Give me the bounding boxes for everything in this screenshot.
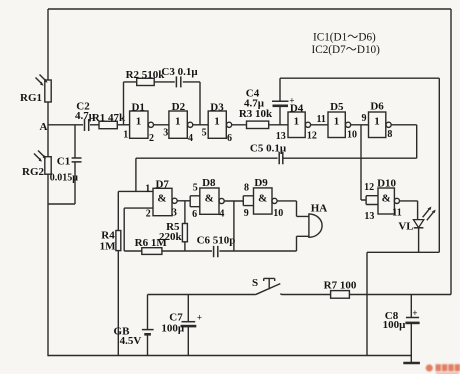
capacitor C4 4.7u electrolytic <box>244 78 295 125</box>
svg-text:100μ: 100μ <box>161 323 185 335</box>
svg-text:D9: D9 <box>254 177 268 189</box>
nand gate D8 input bracket <box>190 196 200 207</box>
capacitor C6 510p <box>197 235 236 258</box>
svg-text:+: + <box>412 308 417 318</box>
svg-text:5: 5 <box>202 128 207 139</box>
svg-text:1: 1 <box>334 116 340 128</box>
wire C1 branch <box>48 125 75 204</box>
resistor R5 220k <box>159 221 187 243</box>
svg-text:1: 1 <box>214 116 220 128</box>
wire D7 pin1 <box>118 190 153 192</box>
nand gate D9 <box>244 177 283 219</box>
nand gate D7 <box>145 178 177 219</box>
resistor R1 <box>92 112 126 129</box>
svg-text:9: 9 <box>362 113 367 124</box>
resistor R7 100 <box>324 279 357 298</box>
wire speaker bottom <box>297 236 309 251</box>
wire R4 branch vertical <box>117 191 119 355</box>
svg-text:RG2: RG2 <box>22 166 45 178</box>
svg-text:4: 4 <box>188 133 193 144</box>
inverter D3 <box>202 101 232 144</box>
nand gate D8 <box>192 177 224 220</box>
svg-text:D1: D1 <box>131 102 144 114</box>
svg-text:D10: D10 <box>377 178 396 190</box>
LED VL <box>398 207 435 233</box>
svg-text:13: 13 <box>364 211 374 222</box>
svg-text:9: 9 <box>244 208 249 219</box>
wire C5 line down to D7 pin 1 <box>135 158 137 191</box>
resistor R6 1M <box>135 237 168 254</box>
svg-text:3: 3 <box>163 128 168 139</box>
capacitor C2 <box>75 101 96 132</box>
svg-text:2: 2 <box>146 209 151 220</box>
svg-text:100μ: 100μ <box>383 319 407 331</box>
svg-text:C6 510p: C6 510p <box>197 235 236 247</box>
wire D7 out to D8 <box>177 200 190 202</box>
svg-text:1: 1 <box>175 116 181 128</box>
svg-text:RG1: RG1 <box>20 92 42 104</box>
svg-text:12: 12 <box>307 131 317 142</box>
svg-text:4.5V: 4.5V <box>120 335 142 347</box>
svg-text:8: 8 <box>387 129 392 140</box>
photoresistor RG1 <box>20 75 51 105</box>
svg-text:6: 6 <box>227 133 232 144</box>
inverter D4 <box>276 102 317 142</box>
svg-text:HA: HA <box>311 203 328 215</box>
capacitor C7 100u electrolytic <box>161 295 202 356</box>
svg-text:VL: VL <box>398 221 413 233</box>
wire D8 out to D9 <box>224 200 243 202</box>
svg-text:3: 3 <box>172 208 177 219</box>
wire LED down <box>418 228 420 253</box>
svg-text:R1 47k: R1 47k <box>92 112 126 124</box>
feedback wire left vertical to D1 input <box>123 82 125 125</box>
capacitor C5 0.1u <box>250 143 287 165</box>
svg-text:D2: D2 <box>172 101 186 113</box>
top feedback rail of second oscillator <box>280 77 439 79</box>
nand gate D10 <box>364 178 402 222</box>
switch S <box>252 277 280 295</box>
svg-text:R3 10k: R3 10k <box>239 108 273 120</box>
svg-text:C3 0.1μ: C3 0.1μ <box>161 66 198 78</box>
battery GB 4.5V <box>114 295 154 356</box>
ground terminal stub below rail <box>410 356 412 363</box>
svg-text:&: & <box>157 193 166 205</box>
watermark logo <box>426 364 460 374</box>
svg-text:D6: D6 <box>370 101 384 113</box>
svg-text:D4: D4 <box>290 102 304 114</box>
svg-text:13: 13 <box>276 131 286 142</box>
svg-text:D3: D3 <box>210 101 224 113</box>
right vertical of second oscillator feedback <box>438 78 440 252</box>
speaker HA <box>309 203 327 238</box>
svg-text:D5: D5 <box>330 101 344 113</box>
svg-text:D8: D8 <box>202 177 216 189</box>
feedback wire horizontal <box>124 81 201 83</box>
svg-text:8: 8 <box>244 183 249 194</box>
svg-text:10: 10 <box>347 130 357 141</box>
wire down to ground rail <box>366 252 368 355</box>
inverter D2 <box>163 101 193 144</box>
svg-text:11: 11 <box>316 114 325 125</box>
inverter D5 <box>328 101 357 141</box>
lower node rail wire <box>124 250 296 252</box>
feedback wire right vertical to D2 output <box>199 82 201 125</box>
capacitor C3 0.1u <box>161 66 198 87</box>
photoresistor RG2 <box>22 151 51 179</box>
C5 line wire <box>136 157 417 159</box>
wire D10 out to LED <box>400 201 418 220</box>
svg-text:1: 1 <box>294 116 300 128</box>
svg-text:10: 10 <box>273 208 283 219</box>
svg-text:1: 1 <box>123 130 128 141</box>
svg-text:&: & <box>258 193 267 205</box>
capacitor C8 100u electrolytic <box>383 295 420 356</box>
frame left rail wire <box>47 9 49 356</box>
wire D9 out to speaker <box>277 201 309 217</box>
svg-text:IC1(D1～D6): IC1(D1～D6) <box>313 32 376 44</box>
wire D5 to D6 <box>351 124 369 126</box>
wire D6 output loop <box>391 125 416 158</box>
svg-text:1: 1 <box>374 116 380 128</box>
svg-text:5: 5 <box>193 182 198 193</box>
svg-text:D7: D7 <box>155 178 169 190</box>
svg-text:&: & <box>205 193 214 205</box>
bottom ground rail wire <box>48 355 411 357</box>
capacitor C1 0.015u <box>50 156 82 184</box>
wire D5-D6 node down to D10 <box>361 125 366 200</box>
resistor R4 1M <box>100 230 121 253</box>
svg-text:1: 1 <box>136 116 142 128</box>
svg-text:C5 0.1μ: C5 0.1μ <box>250 143 287 155</box>
supply wire switch to R7 <box>280 293 330 296</box>
wire R5 branch <box>184 201 186 251</box>
svg-text:R6 1M: R6 1M <box>135 237 168 249</box>
svg-text:4: 4 <box>219 209 224 220</box>
wire D3 to R3 to D4 <box>232 124 288 126</box>
svg-text:1: 1 <box>145 183 150 194</box>
svg-text:A: A <box>40 121 48 133</box>
nand gate D9 input bracket <box>243 196 253 206</box>
frame top rail wire <box>48 8 451 10</box>
wire D2 to D3 <box>193 124 208 126</box>
inverter D6 <box>369 101 393 141</box>
wire lower horizontal link <box>367 251 439 253</box>
svg-text:4.7μ: 4.7μ <box>244 98 265 110</box>
wire D7 pin2 <box>124 208 153 251</box>
inverter D1 <box>123 102 154 145</box>
svg-text:R7 100: R7 100 <box>324 279 357 291</box>
svg-text:11: 11 <box>392 208 401 219</box>
supply wire battery to switch <box>148 294 256 296</box>
svg-text:IC2(D7～D10): IC2(D7～D10) <box>312 44 381 56</box>
svg-text:1M: 1M <box>100 241 117 253</box>
wire node A horizontal <box>48 124 83 126</box>
svg-text:&: & <box>382 193 391 205</box>
svg-text:S: S <box>252 277 258 289</box>
wire D1 to D2 <box>154 124 169 126</box>
svg-text:+: + <box>197 313 202 323</box>
svg-text:12: 12 <box>364 182 374 193</box>
svg-text:0.015μ: 0.015μ <box>50 173 79 184</box>
wire D4 to D5 <box>311 124 328 126</box>
supply wire R7 to right rail <box>349 294 451 296</box>
frame right rail wire <box>450 9 452 295</box>
svg-text:6: 6 <box>192 209 197 220</box>
resistor R2 510k <box>126 69 166 86</box>
svg-text:R2 510k: R2 510k <box>126 69 166 81</box>
wire C6 up to D8 output node <box>233 201 235 251</box>
svg-text:2: 2 <box>149 133 154 144</box>
resistor R3 10k <box>239 108 273 129</box>
svg-text:C1: C1 <box>57 156 70 168</box>
nand gate D10 input bracket <box>366 196 378 205</box>
